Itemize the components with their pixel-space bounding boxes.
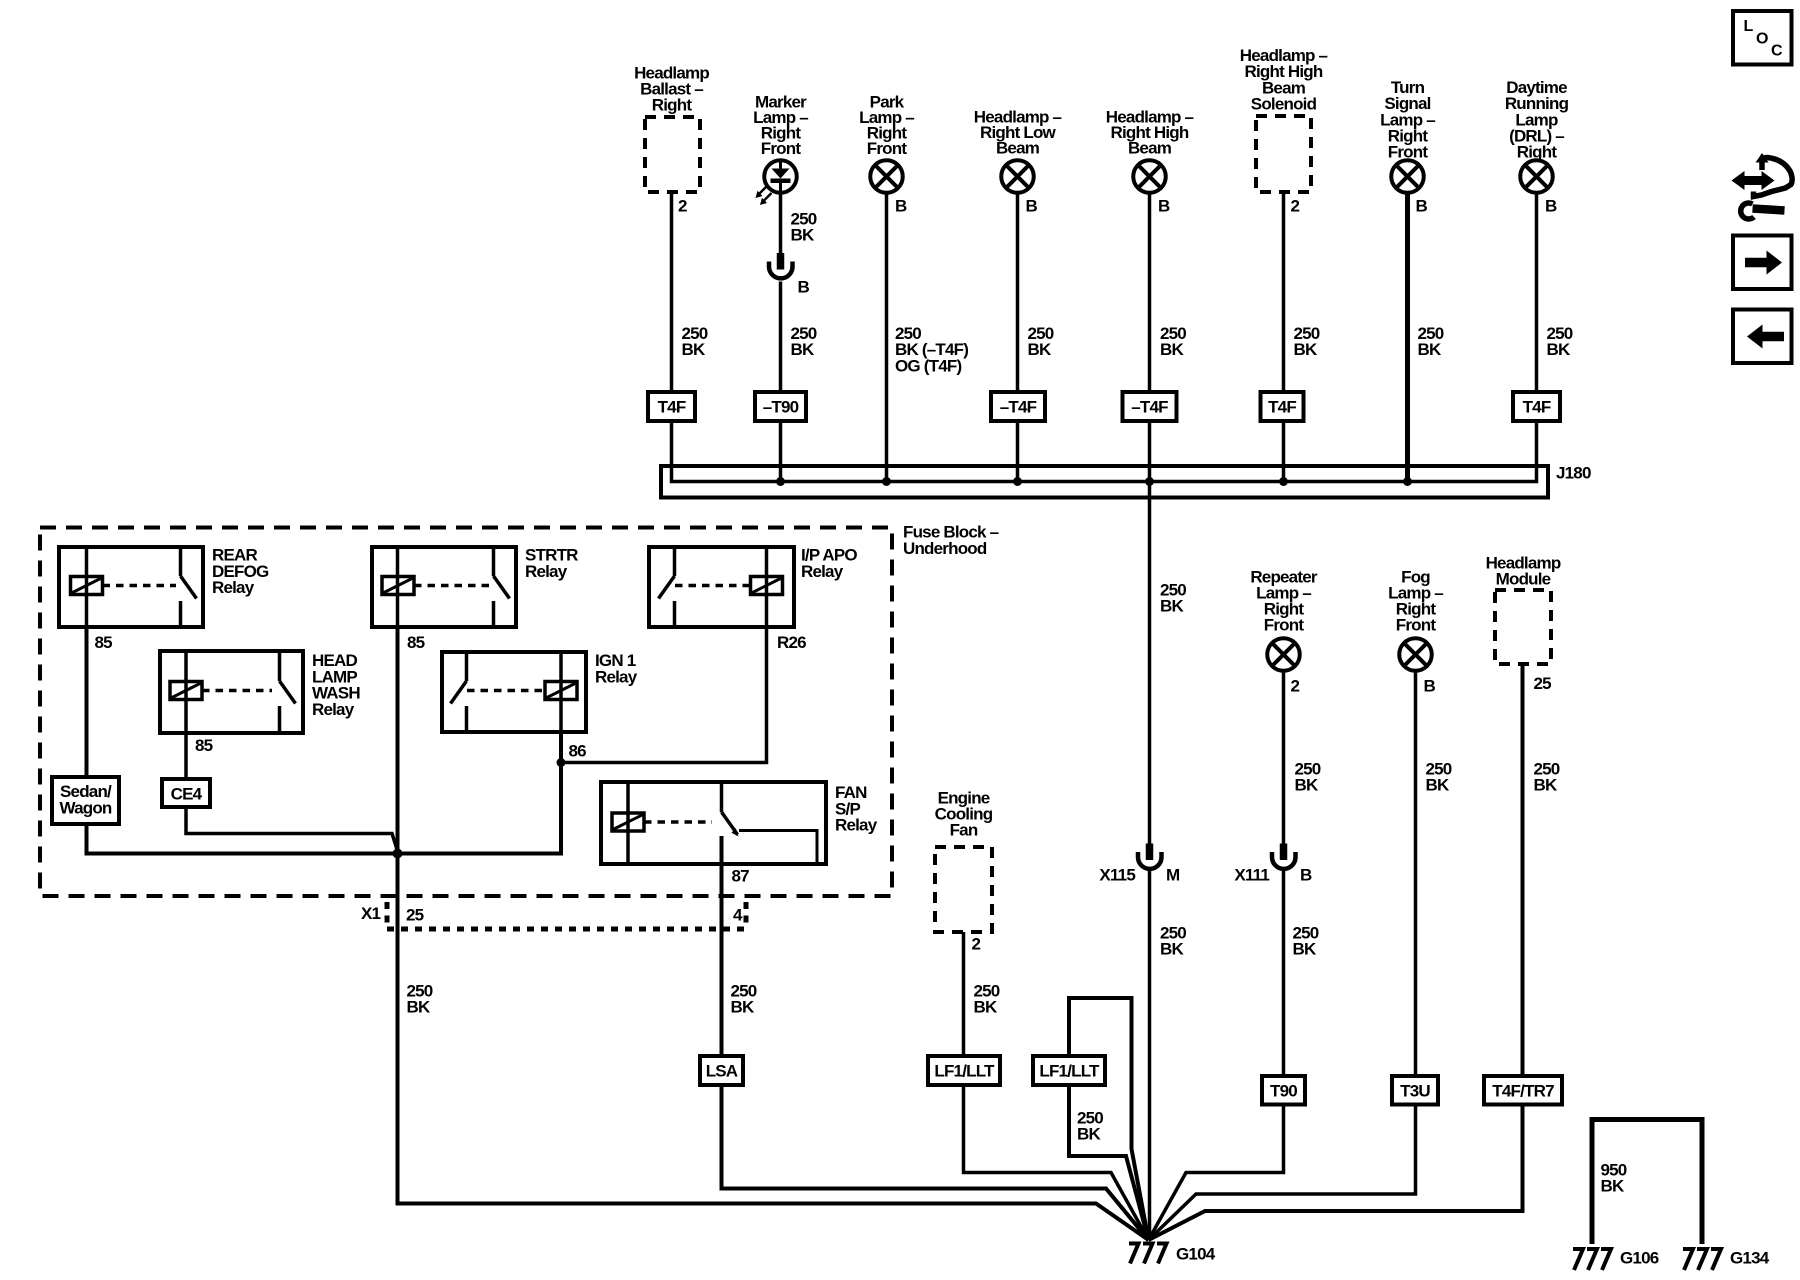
connector LSA [700, 1056, 743, 1085]
svg-text:Relay: Relay [801, 562, 844, 581]
icon: forward arrow button [1733, 236, 1792, 290]
svg-text:BK: BK [1534, 776, 1558, 795]
relay K: I/P APO Relay [649, 546, 857, 628]
wire: X115 to G104 ground [1148, 871, 1152, 1240]
svg-text:X111: X111 [1234, 866, 1269, 885]
connector -T4F (high beam) [1123, 392, 1177, 421]
fuse block boundary (dashed) [40, 528, 892, 897]
wire: LSA to G104 [722, 1085, 1149, 1240]
svg-text:BK: BK [682, 340, 706, 359]
wire: fog lamp through T3U to G104 [1149, 671, 1416, 1241]
component: Headlamp Ballast - Right (dashed box) [634, 64, 709, 193]
svg-text:BK: BK [731, 998, 755, 1017]
component: Park Lamp - Right Front (lamp) [859, 93, 914, 193]
wire: headlamp low beam drop to bus [1016, 193, 1020, 482]
wire: fan s/p 87 through X1 pin 4 to LSA [720, 836, 724, 1056]
connector T4F (solenoid) [1261, 392, 1304, 421]
svg-text:BK: BK [1160, 340, 1184, 359]
wire: head lamp wash 85 to CE4 [184, 733, 188, 779]
connector LF1/LLT (engine fan) [928, 1056, 1000, 1085]
svg-text:85: 85 [195, 736, 213, 755]
wire: marker lamp upper segment [779, 193, 783, 253]
component: Turn Signal Lamp - Right Front (lamp) [1380, 78, 1435, 193]
svg-text:T4F: T4F [658, 398, 686, 417]
svg-text:Relay: Relay [595, 667, 638, 686]
ground G106 [1573, 1249, 1659, 1271]
svg-text:–T4F: –T4F [1000, 398, 1037, 417]
svg-text:Front: Front [1396, 616, 1437, 635]
relay K: FAN S/P Relay [601, 782, 878, 864]
svg-text:X115: X115 [1099, 866, 1135, 885]
svg-text:B: B [798, 278, 810, 297]
svg-text:–T90: –T90 [763, 398, 799, 417]
svg-text:R26: R26 [777, 633, 806, 652]
svg-text:T4F: T4F [1523, 398, 1551, 417]
svg-text:BK: BK [791, 340, 815, 359]
svg-text:B: B [1158, 197, 1170, 216]
junction: marker lamp at bus [776, 477, 785, 486]
svg-text:CE4: CE4 [171, 785, 203, 804]
wire: LF1/LLT(2) loop up and to G104 [1069, 998, 1149, 1240]
svg-text:85: 85 [407, 633, 425, 652]
connector -T4F (low beam) [991, 392, 1045, 421]
svg-text:Relay: Relay [835, 816, 878, 835]
connector T90 [1262, 1076, 1305, 1105]
svg-text:2: 2 [972, 935, 981, 954]
svg-text:Solenoid: Solenoid [1251, 95, 1317, 114]
svg-text:BK: BK [407, 998, 431, 1017]
svg-text:BK: BK [791, 226, 815, 245]
svg-text:G104: G104 [1176, 1245, 1216, 1264]
component: Marker Lamp - Right Front (LED) [753, 93, 808, 206]
wire: headlamp high beam drop through bus to X115 [1148, 193, 1152, 844]
svg-text:BK: BK [1294, 340, 1318, 359]
wire: engine cooling fan to LF1/LLT [962, 932, 966, 1056]
svg-text:2: 2 [678, 197, 687, 216]
svg-text:Module: Module [1496, 570, 1551, 589]
wire: LF1/LLT(1) to G104 [964, 1085, 1149, 1240]
svg-text:BK: BK [1160, 597, 1184, 616]
svg-text:Wagon: Wagon [59, 798, 111, 817]
connector T4F (ballast) [648, 392, 695, 421]
relay K: STRTR Relay [372, 546, 578, 628]
svg-text:B: B [1545, 197, 1557, 216]
svg-text:Relay: Relay [312, 700, 355, 719]
ground G104 [1129, 1244, 1216, 1264]
svg-text:Underhood: Underhood [903, 539, 987, 558]
wire: Headlamp Ballast to J180 inner bus to DRL (bus inner line) [672, 192, 1537, 482]
svg-text:2: 2 [1291, 677, 1300, 696]
wire: X111 through T90 down and to G104 [1149, 871, 1284, 1240]
svg-text:86: 86 [569, 742, 587, 761]
connector T3U [1392, 1076, 1438, 1105]
icon: back arrow button [1733, 310, 1792, 364]
junction: park lamp at bus [882, 477, 891, 486]
svg-text:BK: BK [1295, 776, 1319, 795]
component: Headlamp Module (dashed box) [1486, 554, 1561, 665]
wire: repeater lamp to X111 [1282, 671, 1286, 844]
junction: turn signal at bus [1403, 477, 1412, 486]
svg-text:G134: G134 [1730, 1249, 1770, 1268]
connector X115 (in-line) [1099, 844, 1161, 885]
svg-text:LF1/LLT: LF1/LLT [1039, 1062, 1100, 1081]
svg-text:T90: T90 [1270, 1082, 1297, 1101]
svg-text:B: B [1416, 197, 1428, 216]
connector CE4 [162, 779, 210, 807]
svg-text:85: 85 [95, 633, 113, 652]
svg-text:BK: BK [1293, 940, 1317, 959]
svg-text:BK: BK [974, 998, 998, 1017]
svg-text:BK: BK [1547, 340, 1571, 359]
connector T4F (DRL) [1513, 392, 1560, 421]
relay K: REAR DEFOG Relay [59, 546, 269, 628]
ground G134 [1683, 1249, 1770, 1271]
connector body J180 [661, 466, 1548, 498]
connector T4F/TR7 [1484, 1076, 1562, 1105]
wire: park lamp drop to bus [885, 193, 889, 482]
svg-text:T4F/TR7: T4F/TR7 [1492, 1082, 1554, 1101]
connector X1 (dotted section) [361, 902, 746, 929]
svg-text:BK: BK [1426, 776, 1450, 795]
icon: LOC button [1733, 11, 1792, 65]
connector X111 (in-line) [1234, 844, 1295, 885]
svg-text:2: 2 [1291, 197, 1300, 216]
component: Headlamp - Right High Beam Solenoid (dashed box) [1240, 46, 1328, 192]
svg-text:B: B [1300, 866, 1312, 885]
svg-text:C: C [1771, 43, 1783, 60]
svg-text:X1: X1 [361, 904, 381, 923]
svg-text:25: 25 [1534, 674, 1552, 693]
svg-text:Front: Front [867, 139, 908, 158]
svg-text:L: L [1744, 18, 1754, 35]
wire: LF1/LLT(2) down to G104 [1069, 1085, 1149, 1240]
svg-text:Beam: Beam [996, 139, 1040, 158]
svg-text:G106: G106 [1620, 1249, 1659, 1268]
wire: 950 BK staple G106 to G134 (heavy) [1592, 1120, 1702, 1245]
component: Repeater Lamp - Right Front (lamp) [1250, 568, 1318, 671]
junction: collector at STRTR 85 [393, 849, 403, 859]
junction: solenoid at bus [1279, 477, 1288, 486]
component: Headlamp - Right High Beam (lamp) [1106, 108, 1194, 193]
svg-text:Front: Front [761, 139, 802, 158]
component: Fog Lamp - Right Front (lamp) [1388, 568, 1443, 671]
svg-text:Front: Front [1264, 616, 1305, 635]
relay K: HEAD LAMP WASH Relay [160, 651, 360, 733]
tag: Sedan/Wagon [52, 777, 119, 824]
wire: head lamp wash CE4 branch to collector junction [186, 807, 398, 851]
svg-text:Right: Right [652, 96, 693, 115]
svg-text:–T4F: –T4F [1131, 398, 1168, 417]
wire: strtr relay 85 through X1 pin 25 to G104 [398, 627, 1149, 1240]
svg-text:Fan: Fan [950, 821, 978, 840]
svg-text:OG (T4F): OG (T4F) [895, 356, 961, 375]
wire: headlamp module through T4F/TR7 to G104 (heavy) [1149, 664, 1523, 1240]
svg-text:J180: J180 [1556, 464, 1591, 483]
svg-text:Beam: Beam [1128, 139, 1172, 158]
connector -T90 (marker) [755, 392, 806, 421]
wire: high beam solenoid drop to bus [1282, 192, 1286, 482]
svg-text:LSA: LSA [706, 1062, 738, 1081]
junction: low beam at bus [1013, 477, 1022, 486]
svg-text:B: B [895, 197, 907, 216]
svg-text:B: B [1424, 677, 1436, 696]
wire: rear defog 85 down, collector run to IGN1 86 [87, 627, 562, 854]
junction: high beam at bus [1145, 477, 1154, 486]
wire: turn signal lamp drop to bus (heavy) [1405, 193, 1410, 482]
svg-text:4: 4 [733, 906, 743, 925]
svg-text:BK: BK [1601, 1177, 1625, 1196]
svg-text:BK: BK [1160, 940, 1184, 959]
icon: shortcut (arrows and wrench) [1732, 153, 1793, 219]
svg-text:BK: BK [1077, 1125, 1101, 1144]
connector LF1/LLT (second) [1033, 1056, 1105, 1085]
svg-text:87: 87 [732, 867, 750, 886]
wire: I/P APO R26 down and across to IGN1 86 [561, 627, 767, 763]
svg-text:BK: BK [1418, 340, 1442, 359]
wire: marker lamp drop to bus [779, 282, 783, 482]
svg-text:LF1/LLT: LF1/LLT [934, 1062, 995, 1081]
svg-text:25: 25 [406, 906, 424, 925]
svg-text:T4F: T4F [1268, 398, 1296, 417]
svg-text:Relay: Relay [525, 562, 568, 581]
svg-text:T3U: T3U [1400, 1082, 1430, 1101]
svg-text:M: M [1166, 866, 1180, 885]
relay K: IGN 1 Relay [442, 651, 638, 732]
component: Headlamp - Right Low Beam (lamp) [974, 108, 1062, 193]
component: Daytime Running Lamp (DRL) - Right (lamp) [1505, 78, 1569, 193]
connector: in-line terminal on marker wire [769, 253, 793, 278]
svg-text:O: O [1756, 31, 1768, 48]
svg-text:Relay: Relay [212, 578, 255, 597]
junction: R26 / IGN1 86 [557, 758, 566, 767]
svg-text:BK: BK [1028, 340, 1052, 359]
component: Engine Cooling Fan (dashed box) [935, 789, 993, 933]
svg-text:B: B [1026, 197, 1038, 216]
